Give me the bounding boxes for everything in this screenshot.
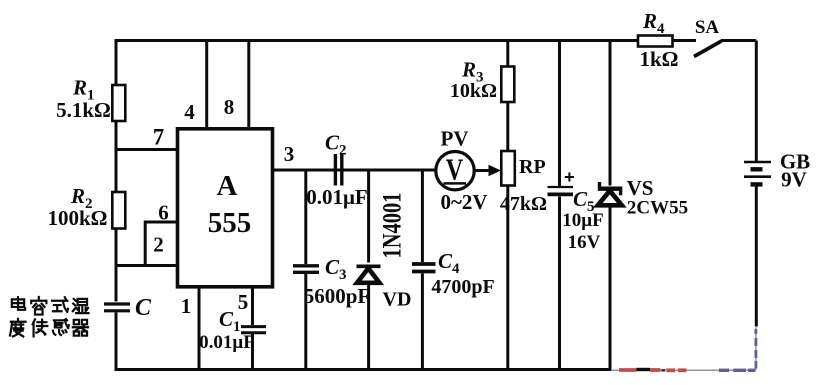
svg-text:VS: VS [627,176,654,200]
svg-text:VD: VD [383,289,412,311]
svg-text:0~2V: 0~2V [440,190,487,214]
svg-text:2: 2 [153,233,164,257]
svg-text:0.01μF: 0.01μF [306,185,367,209]
svg-text:A: A [217,170,238,202]
svg-text:1N4001: 1N4001 [378,193,407,259]
svg-text:V: V [446,152,464,187]
svg-text:3: 3 [284,142,295,166]
svg-text:1: 1 [181,294,192,318]
svg-text:4: 4 [184,100,195,124]
svg-text:SA: SA [695,17,720,38]
svg-text:16V: 16V [568,232,601,253]
svg-text:1kΩ: 1kΩ [640,47,679,71]
svg-text:2CW55: 2CW55 [627,198,688,219]
svg-text:PV: PV [441,127,469,151]
svg-text:C2: C2 [325,131,347,159]
svg-text:10kΩ: 10kΩ [450,80,497,102]
svg-text:7: 7 [153,125,165,150]
svg-text:555: 555 [208,207,252,239]
svg-text:0.01μF: 0.01μF [199,332,255,353]
svg-text:C: C [135,295,152,321]
svg-text:C4: C4 [438,249,460,277]
svg-text:RP: RP [519,156,546,178]
svg-text:10μF: 10μF [562,210,603,231]
svg-text:C3: C3 [325,255,347,283]
svg-text:5.1kΩ: 5.1kΩ [56,98,111,122]
svg-text:4700pF: 4700pF [431,276,494,298]
svg-text:100kΩ: 100kΩ [48,206,108,230]
svg-text:9V: 9V [781,168,807,192]
svg-text:5600pF: 5600pF [304,284,371,308]
svg-text:6: 6 [158,201,169,225]
svg-text:47kΩ: 47kΩ [500,193,547,215]
svg-text:8: 8 [224,95,235,119]
svg-text:5: 5 [238,290,249,314]
svg-text:R4: R4 [642,9,665,37]
